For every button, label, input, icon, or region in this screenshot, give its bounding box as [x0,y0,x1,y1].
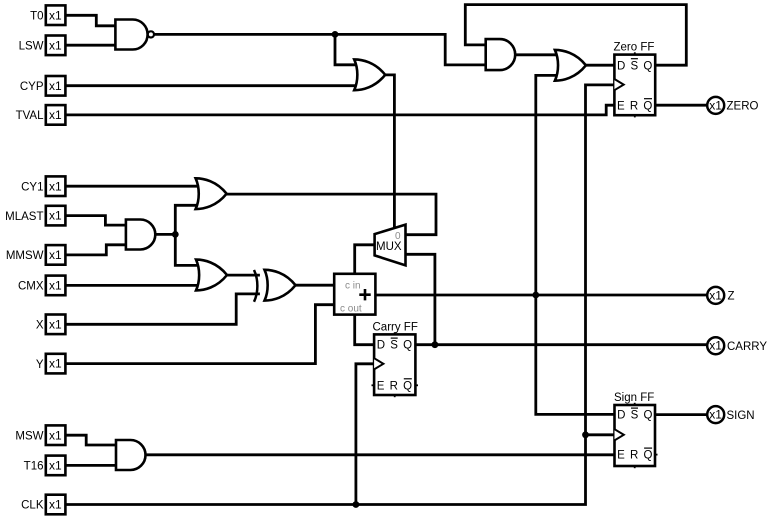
input box CY1 [46,176,66,196]
svg-text:CYP: CYP [20,81,44,93]
input box LSW [46,36,66,56]
wire AND2 output [155,205,201,265]
svg-text:x1: x1 [49,279,62,293]
svg-text:x1: x1 [49,209,62,223]
svg-text:x1: x1 [49,79,62,93]
svg-text:MLAST: MLAST [5,211,43,223]
pin stub Carry FF bottom [394,394,396,397]
input box CMX [46,276,66,296]
svg-text:LSW: LSW [19,41,44,53]
svg-text:x1: x1 [49,108,62,122]
svg-text:Z: Z [728,291,735,303]
svg-text:x1: x1 [49,179,62,193]
node Carry Q to MUX [432,341,439,348]
pin stub Carry FF E [372,384,376,386]
overline S Zero FF [631,58,638,60]
svg-text:x1: x1 [49,357,62,371]
pin stub Sign FF top [634,403,636,406]
svg-text:x1: x1 [49,248,62,262]
wire CLK trunk [65,85,614,505]
wire CLK branch to Carry FF clock [356,364,374,505]
svg-text:SIGN: SIGN [727,410,755,422]
svg-text:x1: x1 [709,98,722,112]
wire CMX to OR4 [65,284,201,287]
svg-text:Carry FF: Carry FF [373,322,418,334]
wire LSW to NAND [65,44,115,47]
svg-text:c in: c in [345,281,361,292]
wire OR3 output to MUX input 0 [225,194,436,235]
overline Q Carry FF [404,378,412,380]
svg-text:E R Q: E R Q [617,450,653,462]
wire MSW to AND3 [65,435,116,445]
svg-text:c out: c out [340,304,362,315]
wire Zero FF Q feedback [465,5,686,66]
input box CLK [46,495,66,515]
input box CYP [46,76,66,96]
output circle ZERO [707,97,724,114]
wire CY1 to OR3 [65,185,200,188]
svg-text:CARRY: CARRY [727,341,767,353]
wire OR1 output to MUX select [385,75,394,228]
svg-text:x1: x1 [709,408,722,422]
svg-text:CLK: CLK [21,500,44,512]
pin stub Sign FF Qbar [654,454,658,456]
input box MSW [46,425,66,445]
wire NAND branch to OR1 [335,34,357,64]
svg-text:T0: T0 [30,11,43,23]
wire CLK branch to Sign FF clock [586,433,615,436]
wire OR2 output to Zero FF D [586,64,615,67]
clock triangle Carry FF [374,358,383,369]
overline Q Sign FF [644,447,652,449]
svg-text:MUX: MUX [376,241,402,253]
wire T16 to AND3 [65,464,116,467]
pin stub Sign FF bottom [634,465,636,468]
input box MLAST [46,206,66,226]
svg-text:TVAL: TVAL [16,110,45,122]
wire CYP to OR1 [65,84,357,87]
overline S Carry FF [391,337,398,339]
wire sum net vertical to OR2 and Sign FF D [536,75,615,414]
input box MMSW [46,245,66,265]
svg-text:x1: x1 [49,498,62,512]
svg-text:D S Q: D S Q [617,60,653,72]
svg-text:Sign FF: Sign FF [614,392,654,404]
plus symbol adder [359,289,370,300]
nand gate G1 [115,20,147,50]
flip-flop Sign FF box [615,405,656,466]
wire Y to adder [65,305,334,364]
output circle Z [707,287,724,304]
xor gate G8 leading arc [254,270,257,302]
svg-text:CMX: CMX [18,281,44,293]
pin stub Carry FF top [394,332,396,335]
svg-text:X: X [36,320,44,332]
wire AND3 output to Sign FF E [146,453,615,456]
or gate G5 [196,178,227,209]
svg-text:CY1: CY1 [21,181,43,193]
wire Carry FF Q to CARRY [415,343,706,346]
wire MMSW to AND2 [65,245,126,255]
pin stub Carry FF Qbar [415,384,419,386]
svg-text:x1: x1 [49,459,62,473]
wire MUX input 1 from Carry Q [406,254,435,344]
wire OR4 output to XOR [226,274,259,277]
node NAND branch [332,31,339,38]
pin stub Zero FF bottom [634,114,636,117]
or gate G4 [555,50,586,81]
svg-text:Zero FF: Zero FF [614,42,655,54]
svg-text:D S Q: D S Q [377,340,413,352]
svg-text:MSW: MSW [15,430,43,442]
svg-text:x1: x1 [49,317,62,331]
mux M1 [375,225,406,266]
xor gate G8 body [265,270,296,301]
and gate G9 [116,440,146,470]
input box Y [46,354,66,374]
flip-flop Carry FF box [374,334,415,395]
clock triangle Zero FF [614,79,623,90]
node sum junction [532,292,539,299]
wire MUX output to adder top [355,245,375,274]
or gate G3 [354,59,385,90]
output circle SIGN [707,406,724,423]
svg-text:D S Q: D S Q [617,410,653,422]
nand bubble [148,31,154,37]
or gate G7 [196,260,227,291]
svg-text:E R Q: E R Q [617,100,653,112]
clock triangle Sign FF [615,429,624,440]
input box T16 [46,456,66,476]
svg-text:0: 0 [395,231,401,242]
wire AND1 output to OR2 [515,53,556,56]
wire NAND output [154,34,486,65]
overline Q Zero FF [644,98,652,100]
wire Sign FF Q to SIGN [655,413,706,416]
svg-text:x1: x1 [49,38,62,52]
overline S Sign FF [631,407,638,409]
output circle CARRY [707,337,724,354]
svg-text:x1: x1 [709,288,722,302]
node CLK to Sign clock [582,431,589,438]
wire adder sum to Z [375,294,706,297]
input box X [46,315,66,335]
wire T0 to NAND [65,15,115,25]
svg-text:x1: x1 [49,8,62,22]
wire X to XOR [65,294,258,324]
svg-text:Y: Y [36,359,44,371]
wire XOR output to adder c in [295,284,334,287]
flip-flop Zero FF box [614,55,655,116]
and gate G2 [486,39,515,70]
node AND2 branch [172,231,179,238]
svg-text:T16: T16 [24,461,44,473]
input box TVAL [46,105,66,125]
svg-text:x1: x1 [709,339,722,353]
pin stub Zero FF top [634,52,636,55]
wire Zero FF Qbar to ZERO [655,104,706,107]
wire MLAST to AND2 [65,216,126,226]
wire adder c out to Carry FF D [355,315,374,345]
svg-text:MMSW: MMSW [6,250,44,262]
svg-text:ZERO: ZERO [727,101,759,113]
input box T0 [46,5,66,25]
and gate G6 [126,220,155,250]
adder A1 [334,274,375,315]
wire TVAL to Zero FF E [65,105,614,115]
svg-text:x1: x1 [49,428,62,442]
node CLK to Carry clock [353,501,360,508]
svg-text:E R Q: E R Q [377,380,413,392]
